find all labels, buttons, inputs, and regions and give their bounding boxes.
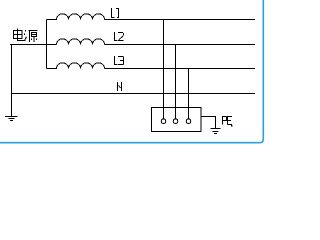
label PE (223, 116, 233, 126)
wire bus vertical (46, 20, 48, 69)
ground (left earth) (5, 117, 18, 121)
wire N (12, 93, 256, 95)
inductor L2 (57, 39, 105, 45)
terminal pin 2 (173, 119, 178, 124)
wire left drop to earth (11, 45, 13, 117)
wire L3 to right (105, 68, 256, 70)
node 电源 (source label) (14, 29, 38, 42)
terminal box (152, 108, 202, 132)
terminal pin 1 (161, 119, 166, 124)
terminal pin 3 (186, 119, 191, 124)
label L2 (115, 32, 124, 41)
label L1 (112, 8, 120, 18)
wire tap L3 (188, 69, 190, 119)
label L3 (115, 56, 124, 65)
wire PE (201, 117, 216, 129)
wire L2 to right (105, 44, 256, 46)
wire L1 to right (105, 19, 256, 21)
inductor L1 (47, 14, 105, 20)
inductor L3 (47, 63, 105, 69)
wire source feed (L2 phase from source to bus) (10, 44, 57, 46)
wire tap L1 (163, 20, 165, 119)
wire tap L2 (175, 45, 177, 119)
label N (118, 82, 122, 91)
ground (PE earth) (211, 129, 221, 134)
